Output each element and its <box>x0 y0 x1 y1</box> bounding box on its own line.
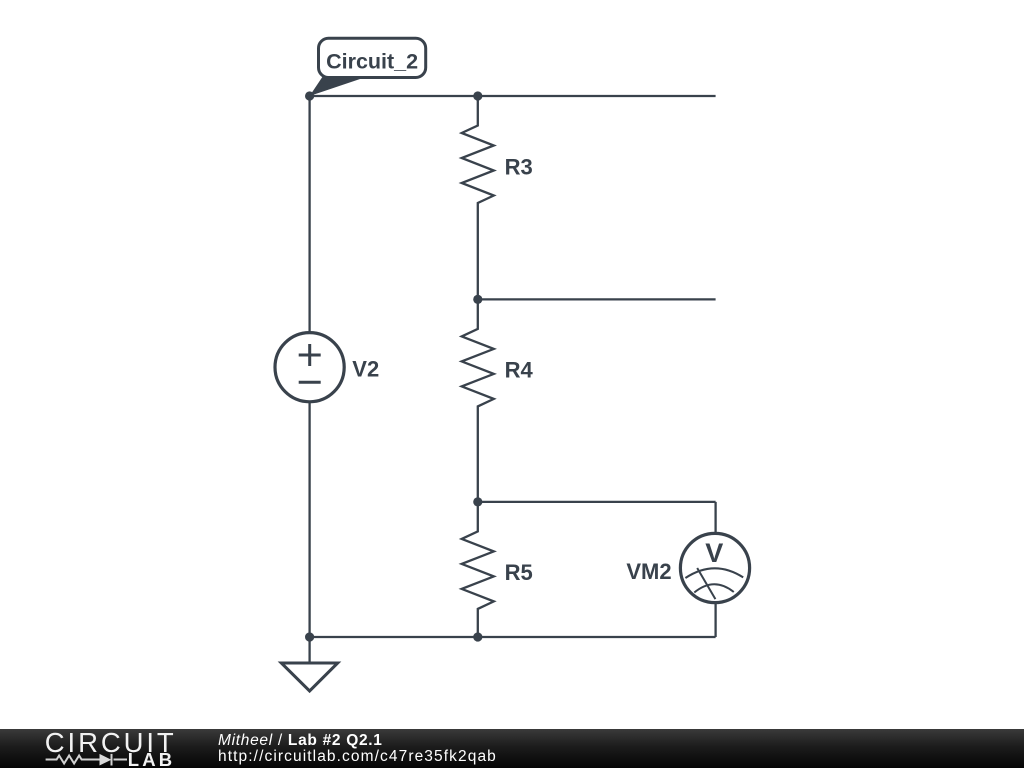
wire VM2 top lead <box>714 502 716 534</box>
svg-text:V2: V2 <box>352 356 379 381</box>
footer bar <box>0 729 1024 768</box>
footer url <box>218 749 497 765</box>
wire bottom horizontal net <box>310 636 716 638</box>
junction node R3/R4 <box>473 295 482 304</box>
voltage source V2 <box>275 333 344 402</box>
wire middle horizontal net (R3/R4 junction to right) <box>478 298 716 300</box>
junction node R4/R5 <box>473 497 482 506</box>
junction node top R3 <box>473 91 482 100</box>
resistor R3 <box>462 96 494 299</box>
voltmeter VM2 <box>680 533 749 602</box>
wire left vertical upper (node A to V2 top) <box>308 96 310 333</box>
svg-text:R5: R5 <box>505 560 533 585</box>
wire left vertical lower (V2 bottom to bottom net) <box>308 402 310 637</box>
svg-text:R3: R3 <box>505 154 533 179</box>
junction node A top-left <box>305 91 314 100</box>
node label bubble Circuit_2 <box>310 38 426 96</box>
wire VM2 bottom lead <box>714 603 716 637</box>
svg-text:LAB: LAB <box>128 749 176 768</box>
junction node ground <box>305 632 314 641</box>
footer title <box>218 733 383 749</box>
ground <box>281 637 337 691</box>
svg-text:VM2: VM2 <box>626 559 671 584</box>
svg-text:V: V <box>705 538 723 568</box>
svg-text:R4: R4 <box>505 358 534 383</box>
junction node R5 bottom <box>473 632 482 641</box>
resistor R4 <box>462 299 494 502</box>
CircuitLab logo <box>0 729 190 768</box>
wire lower horizontal net (R4/R5 junction to VM2) <box>478 501 716 503</box>
svg-text:Circuit_2: Circuit_2 <box>326 50 418 74</box>
resistor R5 <box>462 502 494 637</box>
wire top horizontal net <box>310 95 716 97</box>
